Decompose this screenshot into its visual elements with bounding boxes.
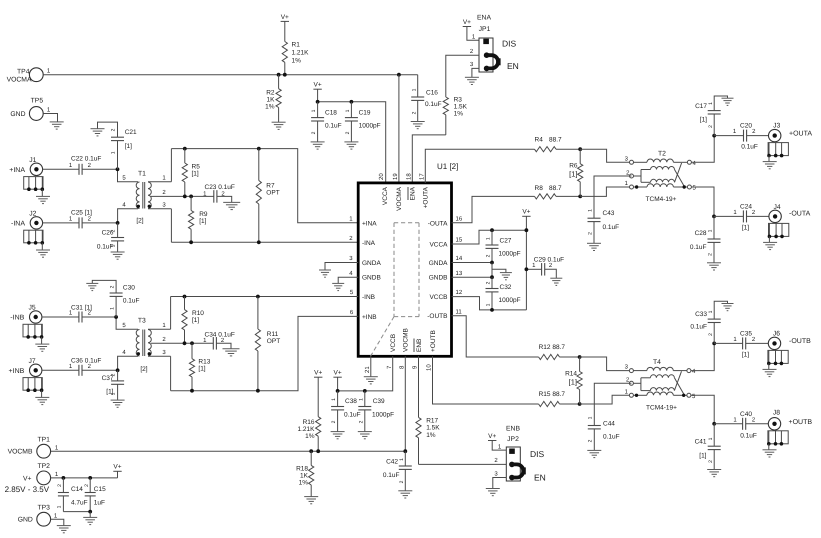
- svg-text:R5: R5: [192, 163, 201, 170]
- wire A top rail (+INA): [171, 149, 358, 223]
- svg-text:C40: C40: [740, 411, 752, 418]
- svg-text:[1]: [1]: [125, 143, 132, 150]
- wire JP1 pin 3: [470, 61, 479, 77]
- ground (C42): [398, 491, 412, 498]
- transformer T2: [634, 151, 688, 204]
- svg-text:1: 1: [486, 237, 492, 240]
- svg-text:1: 1: [358, 398, 364, 401]
- svg-text:V+: V+: [488, 433, 496, 440]
- node R7 top: [257, 147, 261, 151]
- svg-text:-INB: -INB: [362, 294, 375, 301]
- svg-text:1: 1: [111, 151, 117, 154]
- power V+ (TP2 rail): [113, 464, 121, 472]
- svg-text:0.1uF: 0.1uF: [741, 144, 758, 151]
- svg-text:R9: R9: [199, 211, 208, 218]
- svg-text:0.1uF: 0.1uF: [690, 324, 707, 331]
- node R6 top: [578, 147, 582, 151]
- ground (C17): [722, 98, 734, 105]
- svg-text:1.5K: 1.5K: [426, 425, 440, 432]
- capacitor C18 0.1uF: [311, 102, 342, 142]
- capacitor C40 0.1uF: [714, 411, 768, 439]
- U1 right pin names: [427, 220, 448, 320]
- svg-text:1%: 1%: [305, 433, 315, 440]
- svg-text:-INB: -INB: [10, 315, 24, 322]
- svg-text:16: 16: [456, 215, 463, 222]
- svg-text:TP3: TP3: [37, 504, 50, 511]
- svg-text:TCM4-19+: TCM4-19+: [646, 196, 677, 203]
- capacitor C30 0.1uF: [92, 280, 139, 317]
- transformer T1: [136, 171, 151, 225]
- svg-text:2: 2: [111, 373, 117, 376]
- svg-text:1000pF: 1000pF: [499, 297, 521, 304]
- ground (C16): [411, 122, 425, 129]
- svg-text:2: 2: [358, 420, 364, 423]
- svg-text:2: 2: [411, 111, 417, 114]
- svg-text:ENB: ENB: [506, 426, 520, 433]
- resistor R1 1.21K: [282, 21, 309, 74]
- wire C36 to T3 pin 4: [82, 349, 138, 370]
- svg-text:2: 2: [708, 253, 714, 256]
- svg-text:C44: C44: [603, 421, 615, 428]
- svg-text:+OUTA: +OUTA: [789, 130, 812, 137]
- svg-text:+OUTA: +OUTA: [423, 186, 430, 208]
- svg-text:JP2: JP2: [507, 436, 519, 443]
- svg-text:VOCMA: VOCMA: [396, 186, 403, 211]
- ground (C19): [344, 142, 358, 149]
- svg-text:2: 2: [486, 281, 492, 284]
- svg-text:1: 1: [588, 416, 594, 419]
- wire J1 to C22: [43, 162, 79, 169]
- svg-text:V+: V+: [113, 464, 121, 471]
- svg-text:GND: GND: [18, 517, 33, 524]
- node C37 junction: [116, 368, 120, 372]
- svg-text:17: 17: [419, 173, 426, 180]
- svg-text:-OUTA: -OUTA: [789, 210, 811, 217]
- capacitor C22 0.1uF: [71, 156, 101, 175]
- wire TP5 to ground: [43, 114, 57, 122]
- svg-text:88.7: 88.7: [549, 136, 562, 143]
- svg-text:[1]: [1]: [192, 170, 199, 177]
- svg-text:C28: C28: [695, 230, 707, 237]
- svg-text:ENA: ENA: [410, 186, 417, 200]
- svg-text:[1]: [1]: [700, 117, 707, 124]
- svg-text:-OUTB: -OUTB: [427, 313, 447, 320]
- svg-text:J3: J3: [773, 123, 780, 130]
- node R13 top: [190, 341, 194, 345]
- svg-text:2: 2: [57, 484, 63, 487]
- exposed pad dashed outline: [371, 223, 420, 356]
- svg-text:EN: EN: [534, 473, 546, 483]
- power V+ (JP2): [488, 433, 496, 441]
- wire T2 pin 2 to C43: [594, 176, 632, 218]
- node C15 bottom: [88, 510, 92, 514]
- capacitor C38 0.1uF: [331, 391, 361, 432]
- capacitor C27 1000pF: [486, 230, 521, 262]
- svg-text:[1]: [1]: [742, 225, 749, 232]
- svg-text:19: 19: [392, 173, 399, 180]
- wire VOCMA net (TP4 to C16): [43, 74, 418, 76]
- ground (C33): [722, 304, 734, 311]
- svg-text:J1: J1: [29, 157, 36, 164]
- resistor R15 88.7: [539, 391, 580, 407]
- svg-text:+OUTB: +OUTB: [789, 419, 813, 426]
- svg-text:DIS: DIS: [530, 449, 545, 459]
- svg-text:C23 0.1uF: C23 0.1uF: [205, 184, 235, 191]
- svg-text:1.21K: 1.21K: [298, 426, 316, 433]
- svg-text:[1]: [1]: [569, 378, 577, 387]
- resistor R17 1.5K: [416, 417, 440, 464]
- capacitor C24 [1]: [714, 204, 769, 232]
- svg-text:C43: C43: [603, 210, 615, 217]
- svg-text:12: 12: [456, 289, 463, 296]
- node C30 junction: [114, 315, 118, 319]
- svg-text:J4: J4: [774, 204, 781, 211]
- node R11 bottom: [256, 389, 260, 393]
- resistor R10 [1]: [182, 297, 204, 344]
- svg-text:GNDB: GNDB: [429, 275, 448, 282]
- svg-text:C21: C21: [125, 129, 137, 136]
- jumper JP2 (ENB): [506, 426, 546, 483]
- ground (TP5): [50, 122, 64, 129]
- svg-text:GNDA: GNDA: [362, 260, 381, 267]
- connector J3 (+OUTA): [763, 123, 813, 169]
- svg-text:1000pF: 1000pF: [359, 123, 381, 130]
- node pin 8 / C42: [403, 449, 407, 453]
- svg-text:0.1uF: 0.1uF: [603, 224, 620, 231]
- wire J2 to C25: [43, 216, 79, 223]
- svg-text:1: 1: [708, 310, 714, 313]
- svg-text:V+: V+: [314, 370, 322, 377]
- svg-text:DIS: DIS: [502, 39, 517, 49]
- node R11 top: [256, 295, 260, 299]
- ground (JP1): [465, 77, 479, 84]
- svg-text:ENB: ENB: [416, 339, 423, 352]
- wire VOCMB net (TP1 to pin 8): [50, 444, 406, 451]
- svg-text:J6: J6: [773, 331, 780, 338]
- svg-text:1K: 1K: [300, 473, 309, 480]
- capacitor C21 [1]: [98, 122, 138, 169]
- ground (GNDA/GNDB): [500, 273, 512, 280]
- U1 top pin numbers: [378, 173, 426, 180]
- svg-text:R11: R11: [267, 331, 279, 338]
- resistor R14 [1]: [565, 357, 582, 404]
- ground (C41): [707, 470, 721, 477]
- wire B bottom rail (+INB): [171, 309, 359, 391]
- op-amp U1 body: [358, 162, 458, 356]
- U1 bottom pin names: [390, 328, 437, 352]
- svg-text:C42: C42: [386, 459, 398, 466]
- svg-text:1: 1: [345, 109, 351, 112]
- svg-text:20: 20: [378, 173, 385, 180]
- connector J7 (+INB): [9, 358, 50, 405]
- ground (C29): [550, 278, 562, 285]
- ground (C14/C15): [83, 517, 97, 524]
- node pin 14: [490, 261, 494, 265]
- wire C14/C15 bottom rail: [63, 511, 90, 513]
- svg-text:[1]: [1]: [569, 170, 577, 179]
- svg-text:10: 10: [426, 364, 433, 371]
- svg-text:TP4: TP4: [17, 68, 30, 75]
- node C14 top: [62, 476, 66, 480]
- wire pin 16 (-OUTA): [452, 196, 535, 222]
- svg-text:1000pF: 1000pF: [499, 251, 521, 258]
- transformer T4: [633, 359, 687, 411]
- svg-text:V+: V+: [334, 370, 342, 377]
- svg-text:2: 2: [588, 439, 594, 442]
- wire pin 21 to ground: [370, 356, 372, 376]
- svg-text:-INA: -INA: [362, 240, 376, 247]
- svg-text:V+: V+: [314, 82, 322, 89]
- svg-text:1: 1: [399, 458, 405, 461]
- capacitor C26 0.1uF: [97, 223, 124, 252]
- ground (C23): [223, 202, 240, 209]
- wire TP2 to V+ rail: [51, 471, 118, 478]
- svg-text:C18: C18: [325, 110, 337, 117]
- wire T3 pin 2: [151, 336, 213, 343]
- svg-text:C30: C30: [123, 284, 135, 291]
- wire to T4 pin 3: [580, 357, 630, 371]
- capacitor C42 0.1uF: [383, 451, 412, 491]
- node C32 bottom: [490, 308, 494, 312]
- connector J2 (-INA): [11, 210, 50, 257]
- svg-text:VOCMB: VOCMB: [403, 328, 410, 352]
- transformer T2 pins: [626, 160, 696, 192]
- svg-text:J2: J2: [29, 210, 36, 217]
- svg-text:[1]: [1]: [198, 366, 205, 373]
- svg-text:C19: C19: [359, 110, 371, 117]
- wire to T2 pin 1: [580, 180, 629, 196]
- svg-text:VOCMB: VOCMB: [8, 449, 33, 456]
- svg-text:0.1uF: 0.1uF: [425, 101, 442, 108]
- ground (C18): [311, 142, 325, 149]
- svg-text:13: 13: [456, 270, 463, 277]
- svg-text:2: 2: [311, 131, 317, 134]
- svg-text:R1: R1: [292, 42, 301, 49]
- svg-text:2: 2: [399, 480, 405, 483]
- svg-text:ENA: ENA: [477, 15, 491, 22]
- capacitor C29 0.1uF: [526, 257, 564, 279]
- ground (C37): [111, 400, 125, 407]
- svg-text:1: 1: [311, 109, 317, 112]
- resistor R2 1K: [265, 75, 281, 123]
- node pin 13: [490, 275, 494, 279]
- svg-text:GND: GND: [10, 111, 25, 118]
- svg-text:-OUTA: -OUTA: [428, 220, 448, 227]
- wire C15 to ground: [89, 512, 91, 518]
- connector J4 (-OUTA): [763, 204, 810, 250]
- power V+ (C38 rail): [333, 370, 341, 378]
- wire pin 17 (+OUTA): [425, 149, 534, 183]
- capacitor C41 [1]: [695, 424, 721, 470]
- resistor R18 1K: [296, 451, 314, 496]
- svg-text:OPT: OPT: [266, 190, 279, 197]
- node R14 bottom: [578, 402, 582, 406]
- svg-text:TCM4-19+: TCM4-19+: [646, 404, 677, 411]
- svg-text:0.1uF: 0.1uF: [325, 123, 342, 130]
- svg-text:J5: J5: [29, 305, 36, 312]
- wire pin 14 (GNDA): [452, 255, 493, 262]
- svg-text:J7: J7: [29, 358, 36, 365]
- svg-text:C35: C35: [740, 331, 752, 338]
- node VOCMA pin19: [397, 73, 401, 77]
- node R10 bottom: [183, 341, 187, 345]
- svg-text:R6: R6: [569, 163, 578, 170]
- resistor R8 88.7: [535, 185, 581, 199]
- wire pin 8 (VOCMB): [404, 356, 406, 451]
- node C33 bottom: [712, 342, 716, 346]
- svg-text:1: 1: [486, 303, 492, 306]
- capacitor C37 [1]: [102, 370, 125, 400]
- svg-text:-OUTB: -OUTB: [789, 338, 811, 345]
- svg-text:R4: R4: [535, 136, 544, 143]
- resistor R12 88.7: [539, 344, 580, 360]
- connector J1 (+INA): [9, 157, 50, 204]
- node R9 top: [189, 195, 193, 199]
- svg-text:R10: R10: [192, 310, 204, 317]
- svg-text:C36 0.1uF: C36 0.1uF: [71, 357, 101, 364]
- wire T4 pin 2 to C44: [594, 383, 631, 425]
- svg-text:C34 0.1uF: C34 0.1uF: [205, 331, 235, 338]
- capacitor C32 1000pF: [486, 277, 521, 310]
- svg-text:[2]: [2]: [136, 218, 143, 225]
- svg-text:2: 2: [708, 125, 714, 128]
- node R18 top: [309, 449, 313, 453]
- svg-text:[1]: [1]: [199, 218, 206, 225]
- node R10 top: [183, 295, 187, 299]
- svg-text:1: 1: [331, 398, 337, 401]
- transformer T3: [136, 317, 151, 373]
- svg-text:0.1uF: 0.1uF: [344, 412, 361, 419]
- capacitor C34 0.1uF: [203, 331, 235, 349]
- ground (TP3): [57, 526, 71, 533]
- svg-text:1000pF: 1000pF: [372, 412, 394, 419]
- svg-text:TP5: TP5: [31, 98, 44, 105]
- node R7 bottom: [257, 240, 261, 244]
- svg-text:+INA: +INA: [9, 167, 25, 174]
- wire T3 pin 1 to rail: [148, 297, 171, 330]
- capacitor C20 0.1uF: [714, 123, 768, 151]
- capacitor C17 [1]: [695, 96, 727, 136]
- svg-text:R17: R17: [426, 418, 438, 425]
- ground (pin 3 GNDA): [319, 270, 331, 277]
- node C28 top: [712, 215, 716, 219]
- capacitor C39 1000pF: [358, 391, 394, 432]
- capacitor C43 0.1uF: [587, 209, 619, 243]
- svg-text:C39: C39: [373, 398, 385, 405]
- svg-text:[2]: [2]: [140, 366, 147, 373]
- resistor R9 [1]: [189, 196, 208, 242]
- wire VOCMA to pin 19: [398, 75, 400, 183]
- svg-text:88.7: 88.7: [549, 185, 562, 192]
- svg-text:+INB: +INB: [362, 314, 377, 321]
- svg-text:4.7uF: 4.7uF: [71, 499, 88, 506]
- svg-text:+OUTB: +OUTB: [430, 330, 437, 352]
- connector J6 (-OUTB): [763, 331, 812, 377]
- svg-text:V+: V+: [23, 475, 32, 482]
- wire pin 9 (ENB): [418, 356, 420, 417]
- node C17 bottom: [712, 134, 716, 138]
- ground (C43): [587, 243, 601, 250]
- node R14 top: [578, 355, 582, 359]
- svg-text:R3: R3: [454, 97, 463, 104]
- capacitor C25 [1]: [71, 209, 92, 228]
- svg-text:JP1: JP1: [479, 26, 491, 33]
- resistor R3 1.5K: [443, 97, 467, 135]
- svg-text:-INA: -INA: [11, 220, 25, 227]
- ground (C28): [707, 263, 721, 270]
- svg-text:1uF: 1uF: [94, 499, 105, 506]
- node R5 top: [183, 147, 187, 151]
- svg-text:V+: V+: [281, 14, 289, 21]
- ground (R2): [272, 122, 286, 129]
- node C18 top: [316, 100, 320, 104]
- svg-text:[1]: [1]: [699, 452, 706, 459]
- resistor R4 88.7: [535, 136, 581, 152]
- wire B top rail (-INB): [171, 289, 359, 296]
- wire to T4 pin 1: [580, 388, 630, 404]
- capacitor C28 0.1uF: [690, 216, 721, 262]
- test point TP3 (GND): [18, 504, 58, 526]
- resistor R11 OPT: [255, 297, 280, 391]
- svg-text:0.1uF: 0.1uF: [603, 434, 620, 441]
- U1 left pin names: [362, 220, 381, 321]
- svg-text:C38: C38: [345, 398, 357, 405]
- svg-text:1: 1: [111, 244, 117, 247]
- svg-text:T2: T2: [658, 151, 666, 158]
- svg-text:1: 1: [111, 392, 117, 395]
- wire J7 to C36: [42, 363, 79, 370]
- node C21 junction: [116, 167, 120, 171]
- svg-text:[1]: [1]: [192, 317, 199, 324]
- svg-text:1%: 1%: [299, 480, 309, 487]
- svg-text:C20: C20: [740, 123, 752, 130]
- svg-text:11: 11: [456, 308, 463, 315]
- svg-text:0.1uF: 0.1uF: [740, 432, 757, 439]
- svg-text:T3: T3: [138, 317, 146, 324]
- resistor R5 [1]: [182, 149, 200, 197]
- transformer T4 pins: [626, 368, 696, 400]
- ground (pin 21): [364, 377, 378, 384]
- node R9 bottom: [189, 240, 193, 244]
- svg-text:R14: R14: [565, 371, 577, 378]
- ground (C34): [223, 349, 240, 356]
- svg-text:0.1uF: 0.1uF: [123, 298, 140, 305]
- svg-text:0.1uF: 0.1uF: [690, 244, 707, 251]
- power V+ (R16): [314, 370, 322, 378]
- ground (R18): [304, 497, 318, 504]
- svg-text:2: 2: [486, 254, 492, 257]
- resistor R13 [1]: [189, 343, 210, 390]
- capacitor C35 [1]: [714, 331, 768, 359]
- node C39 top: [363, 389, 367, 393]
- wire T1 pin 2: [151, 189, 214, 196]
- node R13 bottom: [190, 389, 194, 393]
- U1 bottom pin numbers: [364, 364, 433, 373]
- svg-text:VCCB: VCCB: [429, 294, 447, 301]
- connector J8 (+OUTB): [763, 409, 813, 457]
- wire pin 4 to ground: [338, 270, 358, 284]
- capacitor C31 [1]: [71, 305, 92, 323]
- svg-text:18: 18: [406, 173, 413, 180]
- node C26 junction: [116, 221, 120, 225]
- svg-text:C27: C27: [500, 237, 512, 244]
- capacitor C36 0.1uF: [71, 357, 101, 376]
- node V+ rail top: [525, 228, 529, 232]
- svg-text:+INA: +INA: [362, 220, 377, 227]
- svg-text:1%: 1%: [426, 432, 436, 439]
- capacitor C16 0.1uF: [411, 75, 441, 122]
- node C15 top: [88, 476, 92, 480]
